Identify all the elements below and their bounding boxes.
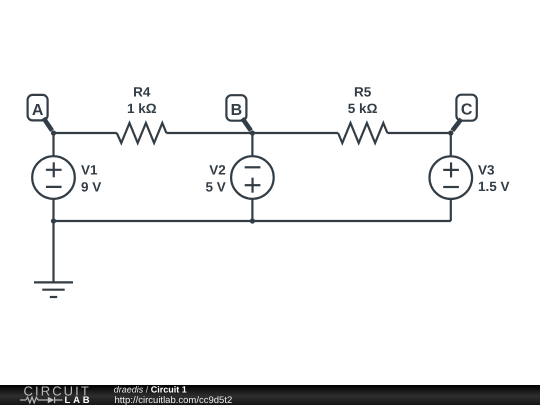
svg-text:1.5 V: 1.5 V [478,179,510,194]
junction dot node A [51,130,56,135]
junction dot bottom B [250,218,255,223]
svg-text:R5: R5 [354,85,372,100]
node A flag box [28,95,48,121]
wire node C down to V3 [450,133,452,156]
svg-text:V1: V1 [81,162,98,177]
node A flag pointer [44,118,53,131]
junction dot node B [250,130,255,135]
ground GND [34,221,73,297]
voltage source V1 [32,156,75,199]
svg-text:B: B [231,102,243,119]
svg-text:LAB: LAB [65,395,93,405]
svg-text:R4: R4 [133,85,151,100]
svg-text:9 V: 9 V [81,179,101,194]
node B flag box [226,95,246,121]
wire node B down to V2 [251,133,253,156]
svg-text:A: A [32,102,44,119]
svg-text:V3: V3 [478,162,495,177]
CircuitLab logo circuit line with resistor and diode [20,397,63,403]
resistor R5 [338,123,387,143]
junction dot bottom A [51,218,56,223]
svg-text:V2: V2 [209,162,226,177]
wire top A to R4 [54,132,117,134]
resistor R4 [117,123,167,143]
svg-text:http://circuitlab.com/cc9d5t2: http://circuitlab.com/cc9d5t2 [115,395,233,405]
node C flag pointer [452,119,461,131]
wire V3 to bottom [450,199,452,221]
svg-text:1 kΩ: 1 kΩ [127,101,157,116]
node C flag box [456,95,476,121]
svg-text:5 V: 5 V [206,179,226,194]
junction dot node C [448,130,453,135]
wire top R4 to R5 [166,132,338,134]
wire V2 to bottom [251,199,253,221]
wire bottom rail [54,220,451,222]
voltage source V2 [231,156,274,199]
node B flag pointer [242,118,251,130]
footer bar [0,385,540,405]
wire top R5 to C [387,132,450,134]
wire node A down to V1 [52,133,54,156]
svg-text:5 kΩ: 5 kΩ [348,101,378,116]
CircuitLab logo diode triangle [48,397,54,404]
svg-text:C: C [461,102,473,119]
svg-text:draedis / Circuit 1: draedis / Circuit 1 [114,385,187,395]
wire V1 to bottom [52,199,54,221]
voltage source V3 [430,156,473,199]
